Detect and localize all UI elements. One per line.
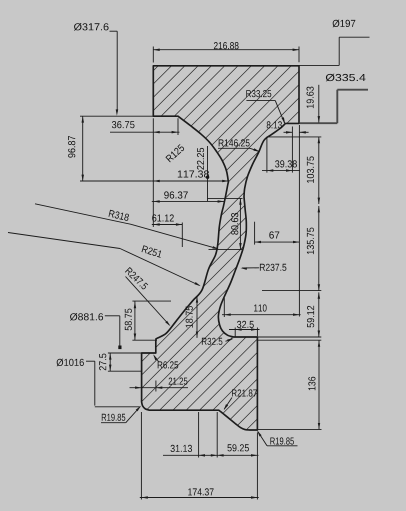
dim 8.13 [298, 125, 300, 317]
dims 31.13 / 59.25 [198, 412, 200, 458]
dim 61.12 [152, 224, 183, 226]
dim 19.63 [318, 85, 320, 123]
label R318 [109, 210, 129, 221]
label dia 881.6 [70, 313, 103, 321]
dim 22.25 [207, 146, 209, 201]
dim 136 [257, 339, 321, 341]
label dia 197 [333, 20, 356, 28]
label dia 1016 [57, 359, 84, 367]
dim 59.12 [318, 292, 320, 337]
dim 58.75 [132, 300, 171, 302]
label R32.5 [202, 338, 223, 345]
dim 96.37 [152, 200, 225, 202]
label R19.85 left [102, 414, 126, 421]
dim 174.37 [140, 412, 142, 500]
label dia 335.4 [326, 74, 366, 82]
label R33.25 [246, 90, 271, 97]
label R125 [165, 144, 184, 162]
label R19.85 right [270, 437, 294, 444]
label R251 [142, 245, 162, 257]
dim 21.25 [155, 381, 157, 392]
dim 103.75 [267, 136, 321, 138]
dim 39.38 [266, 137, 268, 173]
dim 32.5 [234, 328, 236, 337]
label R237.5 [260, 264, 287, 271]
label R247.5 [125, 267, 148, 289]
label R6.25 [158, 361, 179, 368]
dim 135.75 [262, 290, 321, 292]
dim 216.88 [152, 47, 154, 63]
dim 110 [223, 298, 225, 317]
dim 18.75 [196, 296, 198, 338]
label R21.87 [232, 389, 257, 396]
dim 36.75 [177, 118, 179, 135]
part outline [142, 66, 299, 430]
label dia 317.6 [74, 23, 109, 31]
dim 67 [254, 222, 256, 245]
dim 117.38 [152, 180, 229, 182]
dim 80.63 [208, 197, 243, 199]
dim 96.87 [80, 115, 153, 117]
label R146.25 [219, 139, 250, 146]
dim 27.5 [108, 352, 141, 354]
